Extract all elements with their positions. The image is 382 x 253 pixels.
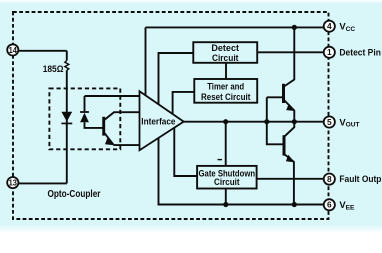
Q3 emitter (284, 154, 294, 204)
photodiode top loop wire (85, 96, 140, 111)
detect circuit left wire (159, 53, 194, 104)
svg-text:Detect Pin: Detect Pin (339, 48, 381, 58)
Q1 collector (104, 112, 140, 120)
junction node Vee/Q3 emitter (292, 202, 297, 207)
svg-text:Fault Output: Fault Output (339, 174, 382, 184)
gate shutdown top wire (225, 122, 227, 166)
svg-text:4: 4 (327, 21, 332, 31)
Q2 base bar (282, 84, 285, 103)
pin 1 (324, 47, 335, 58)
phototransistor Q1 base bar (102, 117, 105, 136)
Q3 emitter arrowhead (286, 155, 295, 163)
Vcc rail (146, 26, 325, 28)
svg-text:13: 13 (9, 178, 18, 188)
svg-text:Detect: Detect (211, 43, 239, 53)
pin 4 (324, 21, 335, 32)
resistor R 185ohm zigzag (65, 61, 69, 71)
photodiode anode wire (85, 122, 104, 128)
detect circuit box (193, 42, 257, 63)
timer box left wire (173, 92, 195, 114)
wire vertical LED chain (66, 51, 68, 184)
Q2/Q3 base drive wire (267, 97, 284, 144)
Vee rail (159, 138, 325, 205)
minus label at gate shutdown input (218, 159, 223, 161)
interface supply wire to Vcc rail (145, 27, 147, 95)
gate shutdown bottom wire (225, 189, 227, 205)
Q3 collector (284, 122, 294, 137)
pin 6 (324, 199, 335, 210)
Q1 emitter arrowhead (105, 138, 114, 146)
junction node Vee/gate shutdown (223, 202, 228, 207)
svg-text:Circuit: Circuit (212, 53, 239, 63)
detect to pin1 wire (257, 51, 324, 53)
pin 14 (7, 44, 18, 55)
svg-text:8: 8 (327, 174, 332, 184)
wire pin13 (18, 182, 66, 184)
opto-coupler dashed box (49, 88, 120, 149)
fault output wire to pin8 (257, 178, 325, 180)
gate shutdown circuit box (197, 166, 257, 189)
interface buffer triangle U1 (140, 91, 184, 150)
svg-text:Circuit: Circuit (214, 177, 240, 187)
junction node output/emitters (292, 119, 297, 124)
svg-text:Interface: Interface (141, 117, 175, 127)
Q2 emitter arrowhead (286, 104, 295, 111)
pin 5 (324, 116, 335, 127)
detect to timer connector wire (225, 63, 227, 80)
junction node Vcc/Q2 collector (292, 25, 297, 30)
Q1 emitter (104, 133, 146, 145)
svg-text:1: 1 (327, 47, 332, 57)
wire pin14 to resistor (18, 50, 66, 52)
LED D1 of opto-coupler (61, 112, 72, 124)
junction node output/base drive (264, 119, 269, 124)
svg-text:185Ω: 185Ω (43, 63, 64, 74)
IC package dashed boundary (13, 12, 329, 219)
svg-text:Opto-Coupler: Opto-Coupler (48, 189, 101, 200)
output wire apex to pin5 (184, 121, 325, 123)
svg-text:14: 14 (9, 45, 18, 55)
timer and reset circuit box (194, 79, 257, 103)
Q2 collector vertical from Vcc rail (284, 27, 294, 86)
gate shutdown left wire (174, 127, 197, 176)
svg-text:Timer and: Timer and (207, 81, 244, 91)
photodiode D2 of opto-coupler (80, 111, 89, 122)
junction node output/gate shutdown (223, 119, 228, 124)
Q2 emitter (284, 100, 294, 122)
svg-text:Reset Circuit: Reset Circuit (201, 92, 251, 102)
svg-text:6: 6 (327, 200, 332, 210)
pin 13 (7, 177, 18, 188)
svg-text:5: 5 (327, 117, 332, 127)
pin 8 (324, 174, 335, 185)
Q3 base bar (283, 135, 286, 155)
